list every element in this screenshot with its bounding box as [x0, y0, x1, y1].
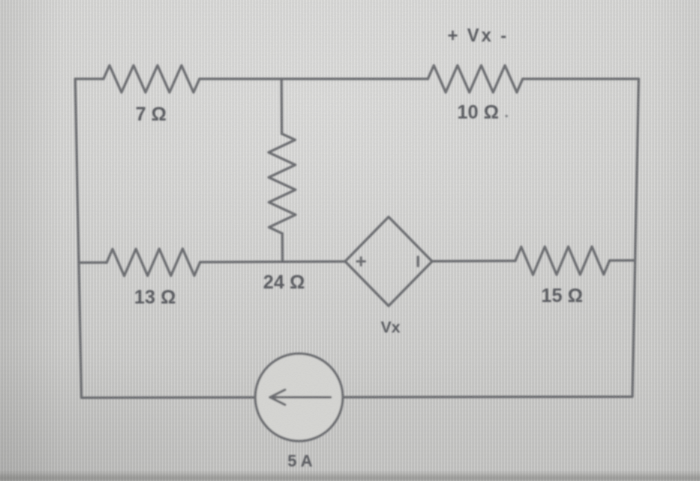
- polarity mark inside source: [417, 257, 420, 266]
+ polarity mark inside source: [357, 257, 365, 265]
wire: top wire middle segment: [200, 78, 428, 81]
wire: left edge vertical: [75, 79, 81, 398]
resistor 15 ohm: [515, 247, 609, 275]
wire: middle wire segment source to 15 ohm: [432, 260, 515, 263]
wire: middle wire segment 13 ohm to source: [200, 260, 345, 263]
dependent source diamond: [345, 217, 432, 306]
resistor 13 ohm: [107, 249, 200, 276]
current source arrow (pointing left): [270, 390, 331, 405]
wire: branch from 24 ohm down to middle wire: [281, 234, 284, 262]
wire: middle wire left segment: [79, 261, 107, 264]
wire: right edge vertical: [632, 79, 638, 397]
current source 5 A (circle): [255, 354, 342, 441]
wire: top wire left segment: [75, 78, 103, 81]
wire: bottom wire: [81, 397, 632, 398]
wire: top wire right segment: [523, 78, 639, 81]
resistor 7 ohm: [104, 65, 200, 92]
wire: branch from top wire down to 24 ohm: [280, 79, 283, 134]
resistor 10 ohm: [428, 65, 523, 92]
wire: middle wire right segment: [610, 259, 635, 262]
resistor 24 ohm (vertical): [269, 134, 296, 234]
